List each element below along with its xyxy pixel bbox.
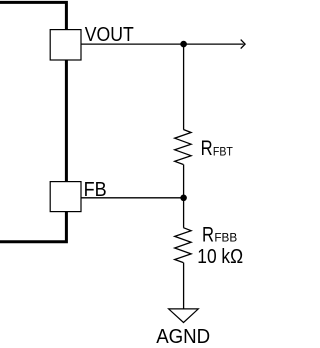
svg-text:FBB: FBB [214, 231, 237, 245]
wire FB node down to R_FBB [183, 198, 185, 228]
arrowhead output [241, 40, 245, 49]
svg-text:VOUT: VOUT [85, 24, 134, 46]
node VOUT junction dot [180, 41, 187, 48]
node FB junction dot [180, 195, 187, 202]
wire VOUT node down to R_FBT [183, 44, 185, 129]
resistor RFBB [175, 228, 191, 263]
IC body outline (partial, thick) [0, 2, 66, 241]
ground AGND triangle [169, 309, 199, 323]
wire R_FBB to ground [183, 263, 185, 309]
pin VOUT terminal square [50, 30, 81, 60]
svg-text:R: R [201, 137, 213, 160]
wire FB pin to FB node [81, 197, 184, 199]
svg-text:R: R [202, 223, 214, 246]
svg-text:FB: FB [84, 179, 107, 201]
wire VOUT output horizontal [81, 43, 244, 45]
resistor RFBT [175, 130, 191, 165]
svg-text:AGND: AGND [156, 326, 210, 348]
pin FB terminal square [50, 182, 81, 212]
svg-text:10 kΩ: 10 kΩ [197, 246, 243, 268]
svg-text:FBT: FBT [213, 144, 233, 158]
wire R_FBT to FB node [183, 165, 185, 198]
